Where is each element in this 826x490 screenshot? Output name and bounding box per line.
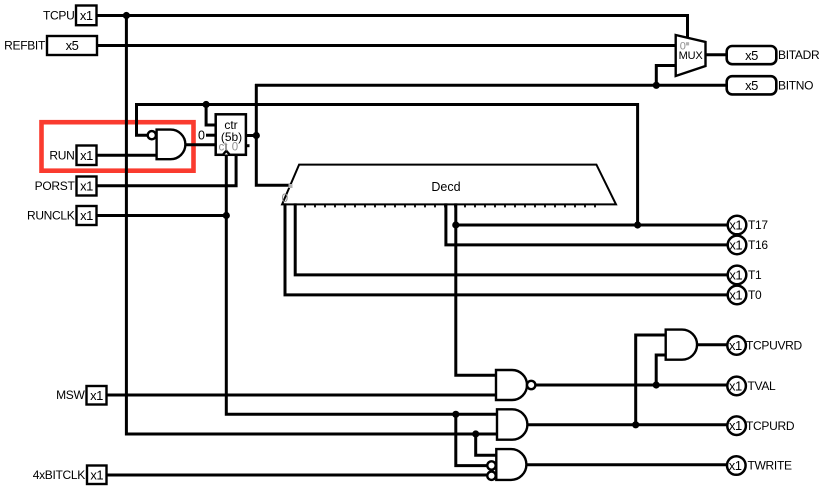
output port BITADR box bbox=[727, 46, 777, 64]
wire constant 0 stub to ctr input bbox=[206, 134, 218, 137]
grey bus square in Decd bbox=[289, 184, 293, 188]
gate G1 AND with inverted input bbox=[157, 130, 186, 160]
output port TCPURD circle bbox=[727, 416, 746, 435]
gate G2 output bubble bbox=[527, 381, 535, 389]
svg-text:0: 0 bbox=[680, 41, 686, 53]
wire junction down to TWRITE gate top input bbox=[476, 434, 498, 455]
wire TCPU input to MUX select bbox=[97, 16, 688, 40]
multiplexer U3 MUX body bbox=[676, 35, 706, 76]
gate G4 middle input bubble bbox=[487, 461, 495, 469]
input port PORST box bbox=[77, 177, 97, 196]
svg-text:ct: ct bbox=[219, 141, 229, 153]
decoder U2 body (Decd) bbox=[282, 165, 616, 205]
junction on T17 line right bbox=[634, 221, 641, 228]
svg-text:T1: T1 bbox=[748, 268, 762, 282]
wire BITNO net across to BITNO port bbox=[255, 84, 727, 87]
svg-text:T17: T17 bbox=[748, 218, 768, 232]
svg-text:Decd: Decd bbox=[431, 180, 460, 194]
junction on T17 line left bbox=[452, 221, 459, 228]
svg-text:x1: x1 bbox=[729, 418, 742, 433]
svg-text:TWRITE: TWRITE bbox=[748, 459, 792, 473]
wire Decd output 17 down to NAND G2 top input bbox=[456, 203, 498, 375]
wire TCPURD junction up to AND G3 top input bbox=[636, 335, 667, 425]
svg-text:x5: x5 bbox=[745, 78, 758, 93]
junction at ctr output bbox=[253, 132, 260, 139]
wire Decd output 16 to T16 port bbox=[446, 203, 729, 245]
counter U1 clock stem bbox=[225, 144, 227, 150]
gate G2 NAND for TVAL bbox=[496, 370, 527, 400]
wire AND G5 output to TCPURD port bbox=[527, 423, 730, 426]
counter U1 clock marker bbox=[221, 149, 231, 155]
input port 4xBITCLK box bbox=[87, 466, 107, 485]
input port TCPU box bbox=[76, 6, 97, 26]
output port T17 circle bbox=[728, 216, 747, 235]
gate G4 bottom input bubble bbox=[487, 472, 495, 480]
wire RUNCLK input to clock rail bbox=[97, 214, 227, 217]
wire ctr output to junction bbox=[245, 134, 257, 137]
svg-text:TCPU: TCPU bbox=[43, 9, 74, 23]
svg-text:T16: T16 bbox=[748, 238, 768, 252]
wire AND G3 output to TCPUVRD port bbox=[696, 343, 729, 346]
svg-text:RUN: RUN bbox=[49, 149, 74, 163]
wire ctr output bus up to BITNO row and down to Decd input bbox=[256, 84, 291, 185]
junction on TCPURD output line bbox=[632, 421, 639, 428]
svg-text:0: 0 bbox=[198, 128, 205, 142]
decoder output pin ticks bbox=[285, 204, 595, 207]
wire NAND G2 output to TVAL port bbox=[535, 384, 729, 387]
junction on TVAL output line bbox=[653, 381, 660, 388]
svg-text:x5: x5 bbox=[66, 38, 79, 53]
input port MSW box bbox=[87, 386, 107, 405]
output port BITNO box bbox=[727, 76, 777, 94]
junction on T17 feedback net bbox=[203, 101, 210, 108]
svg-text:TCPUVRD: TCPUVRD bbox=[746, 339, 803, 353]
wire T17 line to port bbox=[456, 224, 729, 227]
gate G4 AND for TWRITE bbox=[496, 449, 526, 480]
output port TCPUVRD circle bbox=[727, 336, 746, 355]
junction on TCPURD top input line bbox=[452, 411, 459, 418]
svg-text:x1: x1 bbox=[90, 388, 103, 403]
svg-text:x1: x1 bbox=[729, 338, 742, 353]
wire Decd output 0 to T0 port bbox=[285, 203, 729, 295]
junction on RUNCLK clock rail bbox=[223, 212, 230, 219]
wire TCPU rail down to TCPURD gate bottom input bbox=[126, 14, 498, 434]
output port TVAL circle bbox=[727, 377, 746, 396]
svg-text:x1: x1 bbox=[729, 218, 742, 233]
svg-text:4xBITCLK: 4xBITCLK bbox=[33, 468, 86, 482]
input port REFBIT box bbox=[47, 36, 97, 55]
svg-text:x5: x5 bbox=[745, 48, 758, 63]
svg-text:MSW: MSW bbox=[56, 388, 85, 402]
output port T1 circle bbox=[728, 266, 747, 285]
wire gate G1 output to ctr ct input bbox=[184, 143, 218, 146]
grey bus square in MUX bbox=[686, 42, 689, 45]
wire T17 net: G1 inverted input up, across, down to T17 line bbox=[137, 105, 638, 226]
svg-text:x1: x1 bbox=[80, 148, 93, 163]
wire 4xBITCLK input to G4 bottom inverted input bbox=[107, 474, 489, 477]
gate G5 AND for TCPURD bbox=[497, 409, 527, 439]
output port T16 circle bbox=[728, 236, 747, 255]
svg-text:TCPURD: TCPURD bbox=[746, 419, 795, 433]
svg-text:0: 0 bbox=[232, 141, 238, 153]
svg-text:x1: x1 bbox=[729, 378, 742, 393]
output port T0 circle bbox=[728, 286, 747, 305]
wire Decd output 1 to T1 port bbox=[295, 203, 729, 275]
wire PORST input to ctr bottom pin bbox=[97, 153, 237, 186]
input port RUNCLK box bbox=[77, 206, 97, 225]
svg-text:BITNO: BITNO bbox=[778, 79, 813, 93]
svg-text:PORST: PORST bbox=[35, 179, 76, 193]
output port TWRITE circle bbox=[727, 456, 746, 475]
red highlight rectangle bbox=[42, 122, 194, 171]
wire AND G4 output to TWRITE port bbox=[525, 463, 729, 466]
svg-text:0: 0 bbox=[282, 191, 289, 205]
svg-text:TVAL: TVAL bbox=[748, 379, 777, 393]
wire MUX output to BITADR port bbox=[706, 53, 727, 56]
svg-text:REFBIT: REFBIT bbox=[4, 39, 46, 53]
junction on TCPURD bottom input line bbox=[472, 430, 479, 437]
svg-text:x1: x1 bbox=[80, 8, 93, 23]
junction on TCPU line bbox=[123, 12, 130, 19]
svg-text:x1: x1 bbox=[729, 458, 742, 473]
svg-text:x1: x1 bbox=[729, 237, 742, 252]
wire T17 net drop to ctr top input bbox=[206, 103, 217, 125]
counter U1 box ctr (5b) bbox=[216, 114, 246, 155]
gate G1 input bubble bbox=[148, 131, 156, 139]
input port RUN box bbox=[77, 146, 97, 166]
gate G3 AND for TCPUVRD bbox=[666, 330, 697, 360]
wire REFBIT input to MUX data0 bbox=[97, 44, 677, 47]
wire junction down to TWRITE gate middle inverted input bbox=[456, 414, 489, 465]
svg-text:x1: x1 bbox=[729, 287, 742, 302]
svg-text:x1: x1 bbox=[80, 208, 93, 223]
wire RUN input to gate G1 bbox=[97, 154, 159, 157]
svg-text:BITADR: BITADR bbox=[778, 48, 820, 62]
wire BITNO junction up to MUX data1 bbox=[656, 66, 677, 87]
wire ctr carry stub bbox=[245, 144, 250, 147]
svg-text:x1: x1 bbox=[729, 267, 742, 282]
svg-text:x1: x1 bbox=[90, 467, 103, 482]
junction on BITNO line bbox=[653, 82, 660, 89]
wire clock rail down to TCPURD gate top input bbox=[226, 153, 498, 414]
svg-text:T0: T0 bbox=[748, 288, 762, 302]
svg-text:x1: x1 bbox=[80, 179, 93, 194]
wire MSW input to NAND G2 bottom input bbox=[107, 394, 498, 397]
wire TVAL junction up to AND G3 bottom input bbox=[656, 355, 667, 385]
svg-text:RUNCLK: RUNCLK bbox=[27, 209, 75, 223]
